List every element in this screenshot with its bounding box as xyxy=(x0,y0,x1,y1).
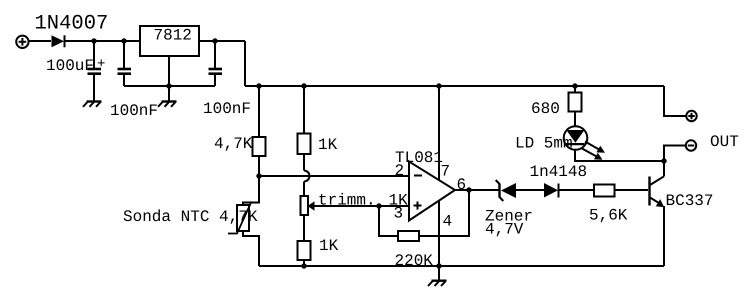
svg-text:BC337: BC337 xyxy=(666,192,714,210)
wire input to diode xyxy=(29,40,51,42)
svg-text:220K: 220K xyxy=(395,252,434,270)
svg-text:7: 7 xyxy=(441,163,451,181)
node: regulator output / C3 junction xyxy=(212,38,217,43)
node: diode / 100uF junction xyxy=(91,38,96,43)
resistor R5 5,6K xyxy=(594,185,615,197)
wire trimmer to R3 xyxy=(303,215,305,241)
svg-text:1K: 1K xyxy=(318,136,338,154)
svg-text:Sonda NTC 4,7K: Sonda NTC 4,7K xyxy=(123,208,258,226)
svg-text:1K: 1K xyxy=(319,237,339,255)
label trimm. 1K xyxy=(318,192,408,210)
node: C2 junction xyxy=(121,38,126,43)
trimmer wiper arrow xyxy=(308,201,380,210)
node B: wiper / pin 3 / feedback xyxy=(376,203,381,208)
resistor R2 1K (top) xyxy=(298,134,311,155)
wire R3 to bottom rail xyxy=(303,260,305,266)
ground for regulator xyxy=(158,102,177,107)
wire NTC to bottom rail xyxy=(243,231,259,267)
bottom rail wire xyxy=(259,265,664,267)
wire rail to R6 xyxy=(574,86,576,93)
wire down to positive rail xyxy=(244,41,246,86)
wire emitter to bottom rail xyxy=(663,206,665,266)
resistor R6 680 xyxy=(569,93,582,112)
label 100uF + xyxy=(46,57,105,76)
feedback wire R4 to node C xyxy=(419,190,469,236)
LED LD1 5mm xyxy=(564,126,588,150)
regulator U2 7812 xyxy=(140,26,199,56)
input terminal + xyxy=(16,36,28,48)
svg-text:+: + xyxy=(97,57,105,73)
ground for C1 xyxy=(83,102,102,107)
node A: R1 / NTC / pin 2 xyxy=(256,173,261,178)
wire zener to diode D3 xyxy=(516,189,544,191)
node: bottom rail / pin 4 / ground xyxy=(436,263,441,268)
thermistor NTC Sonda 4,7K xyxy=(228,202,252,234)
diode D3 1n4148 xyxy=(544,183,559,198)
svg-text:1N4007: 1N4007 xyxy=(35,12,109,35)
output terminal minus xyxy=(686,140,696,150)
svg-text:LD 5mm: LD 5mm xyxy=(515,134,573,152)
wire R5 to transistor base xyxy=(615,189,649,191)
wire node A to op-amp pin 2 xyxy=(259,175,409,177)
svg-text:OUT: OUT xyxy=(710,133,739,151)
wire node B to op-amp pin 3 xyxy=(379,205,409,207)
wire rail corner to plus terminal xyxy=(664,86,686,116)
wire rail to R1 xyxy=(258,86,260,137)
node: rail / divider branch xyxy=(301,83,306,88)
output terminal plus xyxy=(686,111,696,121)
op-amp plus input mark xyxy=(414,202,422,210)
node: rail / R6 branch xyxy=(572,83,577,88)
op-amp output wire pin 6 xyxy=(455,189,499,191)
svg-text:4,7K: 4,7K xyxy=(214,135,253,153)
wire positive rail xyxy=(245,85,664,87)
wire R2 to trimmer with hop over pin2 wire xyxy=(304,154,310,196)
node: rail / op-amp pin 7 xyxy=(436,83,441,88)
wire regulator output xyxy=(199,40,245,42)
wire node A down to NTC xyxy=(243,176,259,205)
wire R1 to node A xyxy=(258,156,260,176)
node: bottom rail / divider xyxy=(301,263,306,268)
transistor Q1 BC337 xyxy=(650,161,665,207)
wire diode D3 to R5 xyxy=(559,189,595,191)
wire capacitor ground rail xyxy=(124,85,215,87)
svg-text:100uF: 100uF xyxy=(46,57,94,75)
op-amp pin 7 wire xyxy=(438,86,440,180)
node: rail / R1 branch xyxy=(256,83,261,88)
svg-text:680: 680 xyxy=(531,100,560,118)
LED light arrows xyxy=(582,142,605,160)
feedback wire node B to R4 xyxy=(379,206,398,236)
capacitor C3 100nF (right) xyxy=(209,41,223,86)
node: ground rail / regulator pin xyxy=(166,83,171,88)
wire minus terminal to node D xyxy=(664,146,686,162)
svg-text:4: 4 xyxy=(443,213,453,231)
op-amp minus input mark xyxy=(414,175,422,177)
wire rail to R2 xyxy=(303,86,305,134)
wire R6 to LED xyxy=(574,112,576,127)
regulator ground pin xyxy=(168,56,170,101)
svg-text:trimm.: trimm. xyxy=(318,192,376,210)
resistor R4 220K xyxy=(398,231,419,241)
svg-text:5,6K: 5,6K xyxy=(589,207,628,225)
svg-text:1n4148: 1n4148 xyxy=(530,163,588,181)
diode D1 1N4007 xyxy=(52,35,65,47)
node C: output / feedback xyxy=(466,187,471,192)
svg-text:6: 6 xyxy=(457,176,467,194)
capacitor C2 100nF (left) xyxy=(118,41,132,86)
zener diode D2 4,7V xyxy=(496,180,516,201)
svg-text:4,7V: 4,7V xyxy=(485,221,524,239)
svg-text:100nF: 100nF xyxy=(110,102,158,120)
trimmer P1 1K xyxy=(301,196,309,215)
op-amp U1 TL081 xyxy=(409,162,455,221)
label Zener 4,7V xyxy=(485,208,533,239)
svg-text:2: 2 xyxy=(395,162,405,180)
wire diode to regulator xyxy=(65,40,141,42)
svg-text:100nF: 100nF xyxy=(203,100,251,118)
svg-text:7812: 7812 xyxy=(154,27,192,45)
op-amp pin 4 wire xyxy=(438,201,440,267)
resistor R3 1K (bottom) xyxy=(298,241,311,260)
svg-text:3: 3 xyxy=(394,205,404,223)
capacitor C1 100uF xyxy=(88,41,102,101)
ground for circuit (bottom) xyxy=(428,266,447,286)
resistor R1 4,7K xyxy=(253,137,266,156)
wire LED to node D xyxy=(575,150,664,161)
node D: collector / LED / minus terminal xyxy=(661,158,666,163)
